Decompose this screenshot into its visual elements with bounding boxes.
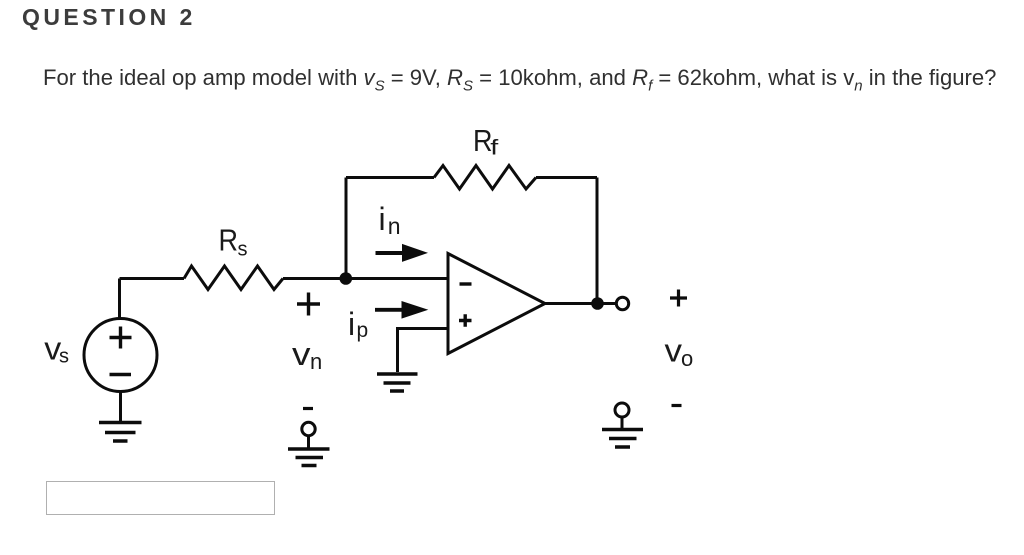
svg-text:s: s bbox=[59, 346, 69, 368]
svg-text:R: R bbox=[219, 223, 239, 258]
svg-text:s: s bbox=[238, 238, 248, 260]
svg-text:v: v bbox=[292, 336, 311, 372]
svg-text:i: i bbox=[348, 306, 355, 342]
svg-text:i: i bbox=[379, 201, 386, 237]
svg-text:n: n bbox=[310, 349, 322, 374]
svg-text:n: n bbox=[388, 213, 401, 239]
svg-text:v: v bbox=[665, 333, 683, 369]
svg-text:f: f bbox=[490, 137, 498, 160]
svg-text:p: p bbox=[357, 319, 369, 342]
svg-text:o: o bbox=[681, 346, 693, 371]
